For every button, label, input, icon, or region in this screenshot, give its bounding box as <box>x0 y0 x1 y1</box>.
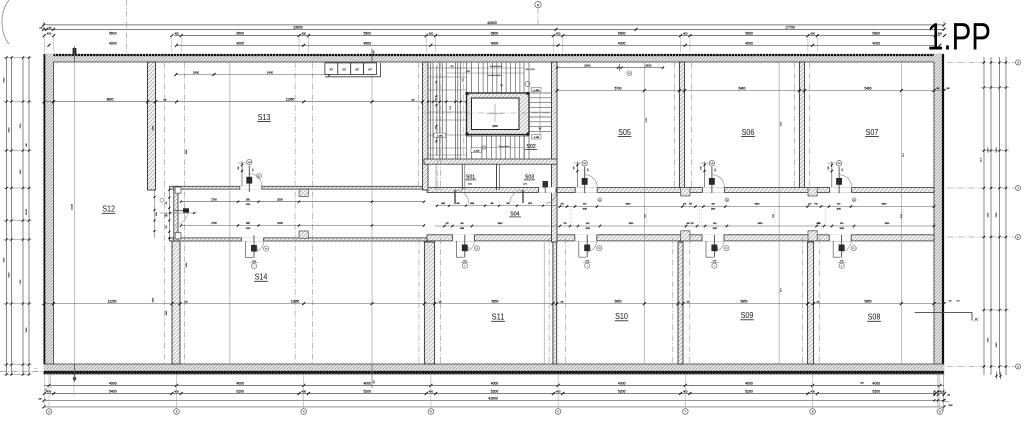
svg-text:900: 900 <box>837 204 840 206</box>
svg-text:150: 150 <box>163 99 166 101</box>
svg-text:400: 400 <box>429 31 434 35</box>
svg-text:900: 900 <box>844 247 846 250</box>
svg-text:400: 400 <box>429 390 434 394</box>
svg-text:3850: 3850 <box>758 223 764 225</box>
svg-text:400: 400 <box>174 31 179 35</box>
svg-text:5850: 5850 <box>614 300 621 304</box>
svg-text:400: 400 <box>687 223 690 225</box>
svg-text:-1.350: -1.350 <box>473 150 480 152</box>
svg-text:2700: 2700 <box>211 198 217 201</box>
svg-text:P3: P3 <box>853 248 855 250</box>
svg-text:5040: 5040 <box>3 77 5 83</box>
svg-text:750: 750 <box>560 204 563 206</box>
svg-text:1: 1 <box>714 266 715 268</box>
svg-text:5800: 5800 <box>872 32 880 36</box>
wall S10-S09 <box>678 242 683 364</box>
svg-text:4000: 4000 <box>109 381 117 385</box>
svg-text:2000: 2000 <box>277 222 283 225</box>
svg-text:AP: AP <box>368 68 372 72</box>
svg-text:150: 150 <box>439 301 442 303</box>
column mark top wall x74 <box>73 46 77 62</box>
svg-text:900: 900 <box>590 247 592 250</box>
svg-text:900: 900 <box>506 203 509 205</box>
svg-text:14240: 14240 <box>26 208 28 215</box>
svg-text:2035: 2035 <box>645 214 647 218</box>
svg-text:750: 750 <box>563 223 566 225</box>
svg-text:2800: 2800 <box>948 405 952 407</box>
left dimension column <box>0 56 44 375</box>
core level labels <box>434 68 541 152</box>
svg-text:1125: 1125 <box>450 106 452 110</box>
door S12 to corridor <box>160 208 197 225</box>
room label S09 <box>740 311 754 320</box>
door S07 <box>828 161 856 202</box>
svg-text:2035: 2035 <box>773 214 775 218</box>
corridor dotted connectors <box>571 209 903 223</box>
svg-text:400: 400 <box>47 31 52 35</box>
bottom dimension line 4 <box>43 405 946 408</box>
svg-text:5340: 5340 <box>996 147 998 153</box>
svg-text:200: 200 <box>842 169 844 172</box>
svg-text:9800: 9800 <box>106 98 113 102</box>
svg-text:900: 900 <box>166 226 168 229</box>
svg-text:3950: 3950 <box>882 204 888 206</box>
bottom left extension ticks <box>44 375 74 409</box>
svg-text:5600: 5600 <box>109 32 117 36</box>
svg-text:4000: 4000 <box>236 381 244 385</box>
svg-text:1: 1 <box>841 266 842 268</box>
svg-text:750: 750 <box>445 223 448 225</box>
svg-text:-1.060: -1.060 <box>437 135 444 137</box>
svg-text:900: 900 <box>460 223 463 225</box>
wall S12-S13 <box>148 62 156 190</box>
extension line x=544 <box>543 242 545 364</box>
svg-text:1.PP: 1.PP <box>927 17 991 59</box>
svg-text:2400: 2400 <box>492 125 498 128</box>
svg-text:5800: 5800 <box>618 32 626 36</box>
svg-text:1: 1 <box>464 266 465 268</box>
svg-text:2400: 2400 <box>584 64 591 68</box>
room label S13 <box>257 113 271 122</box>
svg-text:1: 1 <box>587 266 588 268</box>
right dimension column <box>947 57 1021 379</box>
svg-text:P3: P3 <box>265 249 267 251</box>
svg-text:900: 900 <box>238 166 240 169</box>
bottom dimension line 400/5200 segments <box>43 390 946 396</box>
svg-text:1800: 1800 <box>466 71 470 73</box>
extension line x=372 <box>372 49 376 388</box>
svg-text:5200: 5200 <box>364 390 372 394</box>
door S01 to corridor <box>455 190 469 204</box>
svg-text:S08: S08 <box>868 313 881 322</box>
svg-text:2085: 2085 <box>583 208 587 210</box>
bottom dimension line 4000 segments <box>44 381 944 387</box>
corridor west mini dimension stack <box>154 187 171 241</box>
svg-text:200: 200 <box>715 169 717 172</box>
top dimension line 23600 / 17700 <box>39 25 945 31</box>
column mark bottom wall x74 <box>73 364 77 382</box>
room label S04 <box>509 212 521 218</box>
svg-text:S12: S12 <box>102 205 115 214</box>
door S08 <box>833 235 856 268</box>
svg-text:2035: 2035 <box>901 214 903 218</box>
core east wall <box>552 62 558 242</box>
dimension chain below top wall 2400s <box>556 64 664 76</box>
svg-text:4000: 4000 <box>872 381 880 385</box>
door S03 to corridor <box>510 190 523 203</box>
room label S06 <box>741 128 755 137</box>
svg-text:17700: 17700 <box>785 25 795 29</box>
svg-text:200: 200 <box>588 169 590 172</box>
svg-text:1430: 1430 <box>441 203 445 205</box>
svg-text:5800: 5800 <box>491 32 499 36</box>
building outer wall bottom <box>44 364 945 375</box>
building outer wall right <box>934 54 944 375</box>
svg-text:G: G <box>537 3 539 7</box>
svg-text:5850: 5850 <box>864 300 871 304</box>
room label S02 <box>525 144 537 150</box>
svg-text:4000: 4000 <box>491 381 499 385</box>
svg-text:400: 400 <box>808 204 811 206</box>
corridor north wall <box>170 186 935 196</box>
svg-text:4000: 4000 <box>236 41 244 45</box>
svg-text:750: 750 <box>690 223 693 225</box>
wall S05-S06 <box>679 62 684 190</box>
svg-text:4000: 4000 <box>745 381 753 385</box>
dimension chain top-right rooms <box>556 87 950 93</box>
svg-text:900: 900 <box>713 223 716 225</box>
svg-text:200: 200 <box>252 169 254 172</box>
svg-text:5850: 5850 <box>740 300 747 304</box>
svg-text:100: 100 <box>956 301 959 303</box>
room label S11 <box>491 313 505 322</box>
corridor west end wall <box>174 186 181 241</box>
svg-text:2085: 2085 <box>713 228 717 230</box>
svg-text:11850: 11850 <box>291 300 300 304</box>
stair lower flight treads <box>467 135 530 160</box>
extension line x=74.6 <box>74 62 76 364</box>
svg-text:G: G <box>1017 63 1019 65</box>
door S06 <box>700 161 728 202</box>
top dimension line 4000 segments <box>48 41 942 47</box>
room label S08 <box>867 313 881 322</box>
core south rooms S01 S03 <box>428 145 535 190</box>
svg-text:5460: 5460 <box>864 87 871 91</box>
svg-text:S10: S10 <box>615 312 628 321</box>
core axis dash-dot lines <box>424 62 557 190</box>
svg-text:900: 900 <box>701 166 703 169</box>
building outer wall top <box>44 54 945 62</box>
svg-text:5460: 5460 <box>738 87 745 91</box>
svg-text:2400: 2400 <box>193 71 200 75</box>
svg-text:900: 900 <box>257 247 259 250</box>
stair upper flight treads <box>479 62 520 93</box>
svg-text:2000: 2000 <box>277 198 283 201</box>
corner arc top left <box>2 0 9 44</box>
svg-text:900: 900 <box>840 223 843 225</box>
svg-text:5340: 5340 <box>8 127 10 133</box>
core west wall <box>423 62 428 190</box>
svg-text:3850: 3850 <box>885 223 891 225</box>
svg-text:S14: S14 <box>255 273 268 282</box>
wall S14-S11 <box>424 242 434 364</box>
svg-text:150: 150 <box>561 301 564 303</box>
svg-text:750: 750 <box>814 204 817 206</box>
core inner partitions west zone <box>427 62 529 159</box>
svg-text:12250: 12250 <box>108 300 117 304</box>
svg-text:900: 900 <box>164 216 167 218</box>
svg-text:S11: S11 <box>492 313 505 322</box>
svg-text:4000: 4000 <box>364 381 372 385</box>
corridor dimension chain upper <box>180 198 425 206</box>
svg-text:2400: 2400 <box>267 71 274 75</box>
svg-text:400: 400 <box>683 204 686 206</box>
svg-text:5200: 5200 <box>236 390 244 394</box>
svg-text:2700: 2700 <box>211 222 217 225</box>
svg-text:905: 905 <box>166 202 168 205</box>
svg-text:450: 450 <box>374 380 376 383</box>
S12 rotated dimension labels <box>71 125 187 315</box>
svg-text:P3: P3 <box>476 248 478 250</box>
axis dash-dot pairs top row <box>164 62 809 364</box>
top dimension line total 42600 <box>42 21 946 28</box>
svg-text:5600: 5600 <box>236 32 244 36</box>
door S14 <box>246 235 269 268</box>
svg-text:900: 900 <box>467 247 469 250</box>
extension line x=901 <box>901 62 905 364</box>
svg-text:400: 400 <box>683 390 688 394</box>
svg-text:D4: D4 <box>628 73 630 75</box>
svg-text:41600: 41600 <box>488 396 498 400</box>
svg-text:1675: 1675 <box>528 203 532 205</box>
stair east flight treads <box>529 93 552 136</box>
svg-text:100: 100 <box>39 27 42 29</box>
building outer wall left <box>44 54 54 375</box>
svg-text:5040: 5040 <box>3 257 5 263</box>
svg-text:150: 150 <box>817 301 820 303</box>
level title 1.PP <box>927 17 991 59</box>
svg-text:150: 150 <box>185 301 188 303</box>
wall S12-S14 <box>172 238 180 364</box>
extension line x=230 <box>229 62 231 364</box>
bottom dimension line 3 <box>38 396 945 402</box>
svg-text:2085: 2085 <box>586 228 590 230</box>
svg-text:S07: S07 <box>866 128 879 137</box>
svg-text:1: 1 <box>254 266 255 268</box>
core hatched landing band <box>424 159 557 164</box>
svg-text:400: 400 <box>301 31 306 35</box>
axis dash-dot pairs bottom row <box>419 238 819 364</box>
svg-text:4000: 4000 <box>618 41 626 45</box>
bottom axis bubbles <box>46 375 942 415</box>
svg-text:S06: S06 <box>742 128 755 137</box>
svg-text:2085: 2085 <box>711 208 715 210</box>
svg-text:S13: S13 <box>258 113 271 122</box>
door S09 <box>706 235 729 268</box>
top dimension line 400/5600 segments <box>43 31 946 52</box>
svg-text:5400: 5400 <box>109 390 117 394</box>
svg-text:23600: 23600 <box>293 25 303 29</box>
svg-text:900: 900 <box>717 247 719 250</box>
svg-text:AP: AP <box>342 68 346 72</box>
svg-text:650: 650 <box>451 66 454 68</box>
svg-text:P3: P3 <box>725 248 727 250</box>
svg-text:3850: 3850 <box>498 223 504 225</box>
bottom right corner dims <box>933 375 952 412</box>
svg-text:150: 150 <box>687 301 690 303</box>
svg-text:400: 400 <box>556 390 561 394</box>
svg-text:4000: 4000 <box>745 41 753 45</box>
svg-text:900: 900 <box>586 223 589 225</box>
room label S12 <box>102 205 116 214</box>
svg-text:5800: 5800 <box>745 32 753 36</box>
section marker A-A <box>915 312 979 322</box>
svg-text:5700: 5700 <box>614 87 621 91</box>
svg-text:400: 400 <box>937 88 940 90</box>
wall S06-S07 <box>799 62 804 190</box>
wall S09-S08 <box>808 242 814 364</box>
svg-text:S05: S05 <box>618 128 631 137</box>
svg-text:450: 450 <box>374 50 376 53</box>
svg-text:14240: 14240 <box>71 203 73 210</box>
svg-text:400: 400 <box>556 31 561 35</box>
door S05 <box>573 161 601 202</box>
dimension chain S13 top <box>175 71 332 76</box>
svg-text:11950: 11950 <box>286 98 295 102</box>
axis marker G top middle <box>535 1 541 26</box>
svg-text:400: 400 <box>174 390 179 394</box>
svg-text:400: 400 <box>948 301 951 303</box>
svg-text:5850: 5850 <box>491 300 498 304</box>
svg-text:5200: 5200 <box>745 390 753 394</box>
dimension chain bottom rooms <box>43 300 946 306</box>
svg-text:3850: 3850 <box>629 223 635 225</box>
svg-text:AP: AP <box>355 68 359 72</box>
svg-text:4600: 4600 <box>364 41 372 45</box>
svg-text:-1.060: -1.060 <box>533 137 540 139</box>
svg-text:3950: 3950 <box>626 204 632 206</box>
svg-text:4000: 4000 <box>872 41 880 45</box>
svg-text:P3: P3 <box>258 176 260 178</box>
room label S10 <box>615 312 629 321</box>
svg-text:100: 100 <box>947 88 950 90</box>
extension line x=779 <box>779 62 783 364</box>
door S13 <box>238 159 262 192</box>
svg-text:400: 400 <box>490 203 493 205</box>
svg-text:5200: 5200 <box>872 390 880 394</box>
svg-text:150: 150 <box>411 99 414 101</box>
svg-text:P3: P3 <box>598 248 600 250</box>
svg-text:400: 400 <box>456 203 459 205</box>
svg-text:+1.060: +1.060 <box>533 90 540 92</box>
svg-text:900: 900 <box>573 166 575 169</box>
svg-text:400: 400 <box>683 31 688 35</box>
svg-text:2085: 2085 <box>837 208 841 210</box>
svg-text:12 K: 12 K <box>981 157 983 162</box>
svg-text:4000: 4000 <box>618 381 626 385</box>
extension line x=644 <box>644 62 648 364</box>
svg-text:AP: AP <box>329 68 333 72</box>
svg-text:3950: 3950 <box>755 204 761 206</box>
wall S11-S10 <box>553 242 557 364</box>
svg-text:900: 900 <box>712 204 715 206</box>
svg-text:400: 400 <box>810 390 815 394</box>
svg-text:100: 100 <box>947 394 950 396</box>
svg-text:1000: 1000 <box>470 203 474 205</box>
dimension chain top-left rooms <box>43 98 425 104</box>
svg-text:5200: 5200 <box>618 390 626 394</box>
svg-text:100: 100 <box>38 398 41 400</box>
svg-text:A': A' <box>975 317 979 322</box>
corridor dimension chain lower <box>180 222 935 230</box>
svg-text:5200: 5200 <box>491 390 499 394</box>
door S11 <box>456 235 479 268</box>
door S03 exit to corridor <box>539 181 557 203</box>
room label S05 <box>618 128 632 137</box>
svg-text:900: 900 <box>583 204 586 206</box>
svg-text:400: 400 <box>48 27 51 29</box>
svg-text:2400: 2400 <box>645 64 652 68</box>
room label S07 <box>865 128 879 137</box>
svg-text:4000: 4000 <box>491 41 499 45</box>
svg-text:5340: 5340 <box>8 272 10 278</box>
svg-text:Technikkordidor: Technikkordidor <box>487 75 501 77</box>
svg-text:900: 900 <box>828 166 830 169</box>
svg-text:2085: 2085 <box>460 228 464 230</box>
svg-text:750: 750 <box>689 204 692 206</box>
svg-text:42600: 42600 <box>487 21 497 25</box>
svg-text:100: 100 <box>860 383 863 385</box>
door S10 <box>579 235 602 268</box>
svg-text:5600: 5600 <box>364 32 372 36</box>
svg-text:400: 400 <box>46 389 48 392</box>
svg-text:400: 400 <box>301 390 306 394</box>
corridor south wall <box>170 231 935 242</box>
svg-text:2085: 2085 <box>840 228 844 230</box>
svg-text:400: 400 <box>817 223 820 225</box>
svg-text:4000: 4000 <box>109 41 117 45</box>
room label S14 <box>254 273 268 282</box>
elevator shaft <box>466 92 530 136</box>
svg-text:5340: 5340 <box>988 147 990 153</box>
svg-text:400: 400 <box>810 31 815 35</box>
svg-text:S09: S09 <box>741 311 754 320</box>
corridor dimension chain S04 row <box>435 203 935 210</box>
axis line top left <box>126 0 128 54</box>
svg-text:3040: 3040 <box>156 212 158 216</box>
AP distribution boxes <box>325 63 381 77</box>
